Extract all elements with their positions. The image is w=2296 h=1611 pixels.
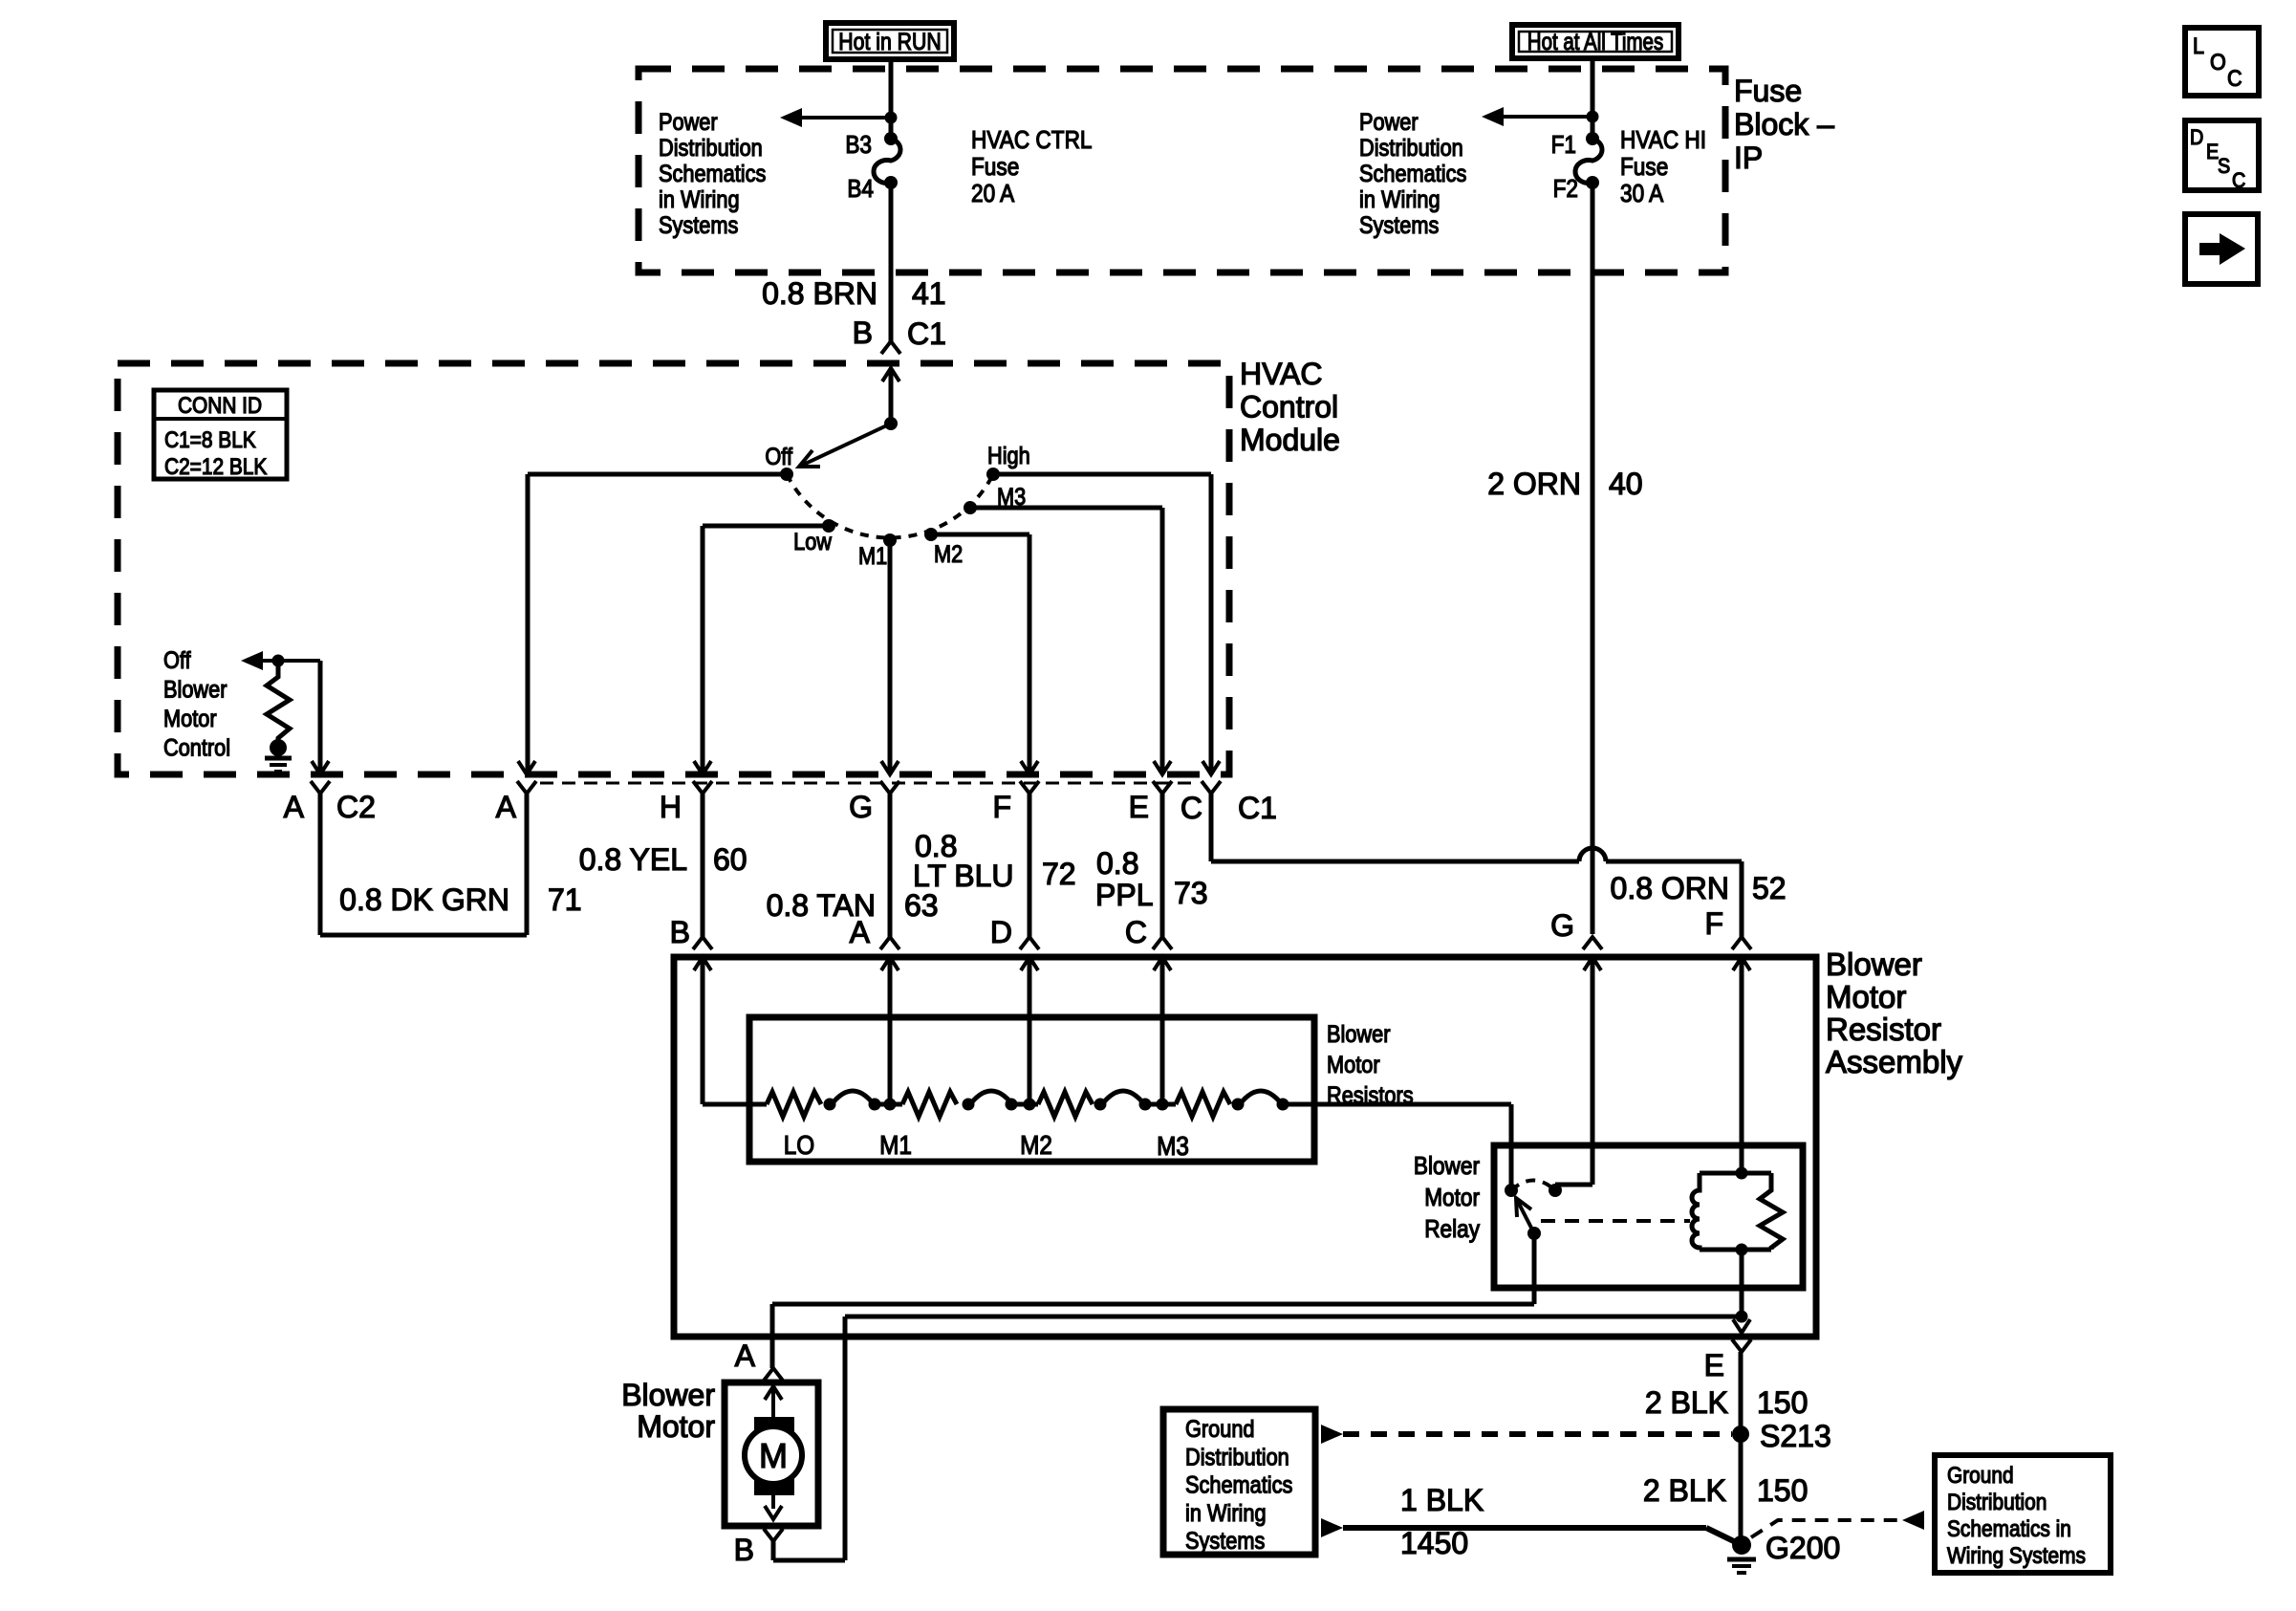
svg-text:in Wiring: in Wiring — [659, 186, 740, 213]
connector C2 pin A (module side) — [312, 761, 329, 774]
svg-text:O: O — [2210, 49, 2226, 75]
junction dot coil top — [1736, 1167, 1748, 1180]
svg-text:0.8 DK GRN: 0.8 DK GRN — [339, 882, 509, 917]
svg-text:C1: C1 — [1238, 791, 1277, 825]
svg-text:20 A: 20 A — [971, 181, 1015, 208]
svg-text:B3: B3 — [845, 132, 872, 160]
junction dot M3 tap — [1157, 1099, 1169, 1111]
blower motor resistors box — [749, 1017, 1314, 1162]
svg-text:Ground: Ground — [1947, 1463, 2014, 1489]
svg-text:HVAC: HVAC — [1240, 357, 1323, 391]
svg-text:73: 73 — [1174, 876, 1208, 910]
svg-text:Resistor: Resistor — [1826, 1012, 1941, 1047]
svg-text:C: C — [2232, 169, 2245, 192]
wire M2 contact to connector C1-F — [931, 533, 1029, 537]
svg-text:Power: Power — [1359, 109, 1419, 136]
junction dot after LO — [824, 1099, 836, 1111]
relay coil suppression resistor — [1760, 1173, 1783, 1250]
svg-text:2 BLK: 2 BLK — [1643, 1473, 1726, 1508]
junction dot ground node E — [1736, 1311, 1748, 1323]
switch pivot junction dot — [884, 417, 898, 430]
svg-text:HVAC HI: HVAC HI — [1620, 127, 1706, 155]
svg-text:150: 150 — [1757, 1473, 1808, 1508]
wire A into M1 tap — [888, 957, 893, 1104]
blower motor relay box — [1494, 1145, 1803, 1288]
ground distribution schematics box (left) — [1163, 1409, 1315, 1555]
svg-text:Systems: Systems — [1185, 1528, 1265, 1555]
svg-text:A: A — [284, 790, 305, 824]
svg-text:M: M — [759, 1436, 788, 1475]
resistor off blower motor control — [267, 661, 290, 743]
svg-text:C: C — [1125, 915, 1147, 949]
svg-text:E: E — [1704, 1348, 1724, 1382]
relay contact dashed arc — [1511, 1181, 1555, 1191]
svg-text:C: C — [1180, 791, 1202, 825]
arrow to Power Distribution Schematics (left fuse) — [780, 108, 802, 127]
svg-text:L: L — [2193, 33, 2204, 58]
svg-text:LO: LO — [784, 1129, 814, 1160]
wire coil bottom to ground node — [1740, 1250, 1744, 1317]
relay contact dot (NO, from fuse) — [1549, 1184, 1562, 1197]
svg-text:Motor: Motor — [163, 706, 217, 732]
arrow to off blower motor control — [241, 651, 263, 670]
wire E to S213 — [1739, 1352, 1744, 1545]
relay wiper pivot dot — [1527, 1227, 1541, 1240]
resistor M1 — [902, 1092, 957, 1117]
svg-text:Distribution: Distribution — [1359, 135, 1463, 162]
connector C1 pin G — [881, 761, 899, 774]
svg-text:M2: M2 — [1020, 1129, 1052, 1160]
CONN ID table box — [154, 390, 287, 479]
svg-text:M3: M3 — [1157, 1130, 1189, 1161]
svg-text:C2=12 BLK: C2=12 BLK — [164, 454, 267, 480]
connector pin C (assembly) — [1153, 937, 1172, 949]
splice S213 dot — [1732, 1426, 1749, 1443]
svg-text:Fuse: Fuse — [1734, 74, 1802, 108]
wire C into M3 tap — [1160, 957, 1165, 1104]
relay actuation dashed link — [1541, 1219, 1690, 1223]
wire hop after M2 — [1102, 1091, 1144, 1104]
wire B into resistor chain — [701, 957, 705, 1104]
legend box forward arrow — [2185, 214, 2258, 284]
svg-text:D: D — [2190, 126, 2203, 149]
svg-text:C2: C2 — [336, 790, 376, 824]
svg-text:G200: G200 — [1765, 1531, 1840, 1565]
dashed link G200 to ground distribution box — [1751, 1520, 1900, 1537]
svg-text:0.8 ORN: 0.8 ORN — [1611, 871, 1729, 905]
svg-text:Schematics: Schematics — [1359, 161, 1466, 187]
arrow from left ground box (bottom) — [1321, 1518, 1343, 1537]
svg-text:Motor: Motor — [637, 1409, 715, 1444]
svg-text:M1: M1 — [879, 1129, 912, 1160]
wire into motor with arrow — [765, 1386, 782, 1400]
svg-text:HVAC CTRL: HVAC CTRL — [971, 127, 1092, 155]
svg-text:1450: 1450 — [1400, 1526, 1468, 1560]
junction dot on HVAC CTRL feed — [885, 112, 898, 124]
svg-text:Systems: Systems — [659, 212, 738, 239]
svg-text:Hot at All Times: Hot at All Times — [1527, 28, 1663, 54]
switch contact dot M2 — [924, 528, 938, 541]
svg-text:Low: Low — [793, 529, 832, 555]
wire branch to power distribution left — [801, 116, 891, 120]
wire motor to B with arrow — [771, 1493, 775, 1509]
arrow from left ground box (top) — [1321, 1425, 1343, 1444]
ground G200 symbol — [1727, 1557, 1756, 1562]
svg-text:C1: C1 — [907, 316, 946, 351]
svg-text:40: 40 — [1609, 467, 1643, 501]
svg-text:Blower: Blower — [621, 1378, 715, 1412]
svg-text:F1: F1 — [1551, 132, 1576, 160]
svg-text:72: 72 — [1042, 857, 1076, 891]
junction dot coil bottom — [1736, 1244, 1748, 1256]
svg-text:G: G — [1550, 908, 1574, 943]
junction dot after M3 resistor — [1232, 1099, 1245, 1111]
wire relay common to blower motor A — [1532, 1233, 1537, 1304]
junction dot on HVAC HI feed — [1587, 111, 1599, 123]
svg-text:S213: S213 — [1760, 1419, 1831, 1453]
svg-text:Control: Control — [163, 734, 230, 761]
svg-text:S: S — [2218, 155, 2230, 178]
svg-text:PPL: PPL — [1095, 878, 1153, 912]
wire blower motor B return to ground node — [771, 1541, 776, 1560]
fuse HVAC CTRL 20A symbol B3-B4 — [884, 132, 898, 145]
svg-text:IP: IP — [1734, 141, 1763, 175]
connector pin E exit (assembly bottom) — [1733, 1319, 1750, 1333]
relay coil top bar — [1700, 1171, 1771, 1176]
wire 0.8 PPL 73 (E to C) — [1160, 794, 1165, 937]
svg-text:Distribution: Distribution — [1947, 1490, 2047, 1515]
switch contact dot High — [986, 468, 1000, 481]
blower motor resistor assembly box — [674, 957, 1816, 1337]
junction dot after M1 resistor — [963, 1099, 975, 1111]
wire High contact to connector C1-C — [993, 472, 1211, 477]
svg-text:F: F — [992, 790, 1011, 824]
svg-text:2 BLK: 2 BLK — [1645, 1385, 1728, 1420]
svg-text:41: 41 — [912, 276, 946, 311]
ground symbol off control — [265, 756, 292, 761]
junction dot M2 tap — [1024, 1099, 1036, 1111]
junction dot after M2 resistor — [1094, 1099, 1107, 1111]
svg-text:B: B — [853, 316, 873, 350]
svg-text:0.8 BRN: 0.8 BRN — [762, 276, 877, 311]
wire F to relay coil — [1740, 957, 1744, 1173]
svg-text:E: E — [1129, 790, 1149, 824]
junction dot before M2 — [1006, 1099, 1018, 1111]
svg-text:2 ORN: 2 ORN — [1487, 467, 1581, 501]
svg-text:Blower: Blower — [1414, 1153, 1480, 1181]
wire fuse B4 down to connector C1-B — [889, 183, 894, 341]
ground dot off control — [270, 739, 287, 756]
svg-text:M1: M1 — [858, 543, 887, 570]
connector pin B (assembly) — [693, 937, 712, 949]
ground distribution dashed link to S213 — [1343, 1431, 1732, 1437]
svg-text:G: G — [849, 790, 873, 824]
wire chain end to relay — [1283, 1102, 1511, 1107]
svg-text:B4: B4 — [847, 176, 874, 204]
svg-text:Motor: Motor — [1826, 979, 1906, 1014]
wire LO-M1 segment — [875, 1102, 902, 1107]
svg-text:Off: Off — [765, 444, 792, 470]
svg-text:Schematics: Schematics — [1185, 1471, 1292, 1498]
svg-text:F: F — [1704, 906, 1723, 941]
wire Low contact to connector C1-H — [703, 524, 829, 529]
wire off control branch — [262, 659, 320, 663]
svg-text:71: 71 — [548, 882, 582, 917]
switch contact arc (dashed) — [787, 474, 993, 537]
wire from Hot at All Times to fuse F1 — [1591, 58, 1595, 139]
HVAC control module dashed box — [118, 363, 1229, 774]
wire M1 contact to connector C1-G — [888, 540, 893, 774]
wire 2 ORN into relay NO contact — [1591, 957, 1595, 1185]
ground distribution schematics box (right) — [1935, 1455, 2111, 1573]
svg-text:in Wiring: in Wiring — [1185, 1499, 1267, 1526]
svg-text:D: D — [990, 915, 1012, 949]
connector pin G (assembly) — [1583, 937, 1602, 949]
svg-text:Block –: Block – — [1734, 107, 1834, 142]
svg-text:Distribution: Distribution — [659, 135, 763, 162]
svg-text:CONN ID: CONN ID — [178, 393, 262, 419]
svg-text:Control: Control — [1240, 390, 1338, 425]
svg-text:Blower: Blower — [163, 676, 227, 703]
svg-text:A: A — [496, 790, 517, 824]
resistor LO — [767, 1092, 821, 1117]
svg-text:1 BLK: 1 BLK — [1400, 1483, 1484, 1517]
connector C1 pin E — [1154, 761, 1171, 774]
svg-text:Module: Module — [1240, 423, 1340, 457]
junction dot before M3 — [1139, 1099, 1152, 1111]
junction dot off control — [272, 655, 285, 667]
svg-text:Schematics: Schematics — [659, 161, 766, 187]
connector C1 pin F — [1021, 761, 1038, 774]
svg-text:F2: F2 — [1553, 176, 1578, 204]
connector C1 pin H — [694, 761, 711, 774]
relay wiper arm — [1516, 1198, 1534, 1233]
svg-text:Fuse: Fuse — [1620, 154, 1668, 182]
svg-text:C: C — [2227, 65, 2242, 91]
svg-text:Power: Power — [659, 109, 718, 136]
connector C1 pin C — [1202, 761, 1220, 774]
svg-text:Motor: Motor — [1327, 1052, 1380, 1078]
wire M1-M2 segment — [1011, 1102, 1038, 1107]
svg-text:Fuse: Fuse — [971, 154, 1019, 182]
svg-text:Blower: Blower — [1826, 947, 1922, 982]
svg-text:B: B — [734, 1533, 754, 1567]
arrow to Power Distribution Schematics (right fuse) — [1482, 107, 1504, 126]
switch contact dot Low — [822, 519, 835, 533]
svg-text:B: B — [670, 915, 690, 949]
svg-text:H: H — [660, 790, 682, 824]
wire 0.8 ORN 52 (C1-C to F) — [1209, 794, 1214, 861]
connector pin D (assembly) — [1020, 937, 1039, 949]
switch contact dot M1 — [883, 533, 897, 547]
ground G200 dot — [1732, 1535, 1751, 1555]
svg-text:M2: M2 — [934, 541, 963, 568]
svg-text:0.8: 0.8 — [1096, 846, 1138, 881]
power feed label box Hot at All Times — [1512, 25, 1679, 58]
wire 0.8 DK GRN 71 link — [318, 794, 323, 935]
resistor M3 — [1176, 1092, 1230, 1117]
junction dot M1 tap — [884, 1099, 897, 1111]
blower motor connector pin A — [764, 1368, 783, 1381]
switch wiper arm with arrowhead — [799, 424, 891, 467]
svg-text:in Wiring: in Wiring — [1359, 186, 1440, 213]
connector C1 pin A — [518, 761, 535, 774]
svg-text:Off: Off — [163, 647, 191, 674]
blower motor box — [725, 1382, 818, 1526]
power feed label box Hot in RUN — [826, 23, 954, 59]
switch contact dot M3 — [964, 501, 977, 514]
wire branch to power distribution right — [1503, 115, 1592, 119]
motor M1 armature symbol — [754, 1417, 794, 1438]
svg-text:60: 60 — [713, 842, 747, 877]
wire hop after M1 — [970, 1091, 1012, 1104]
wire 1 BLK 1450 to G200 — [1343, 1525, 1706, 1531]
svg-text:0.8 YEL: 0.8 YEL — [579, 842, 687, 877]
svg-text:Schematics in: Schematics in — [1947, 1516, 2071, 1542]
wire hop after M3 — [1240, 1091, 1282, 1104]
arrow into right ground box — [1902, 1511, 1924, 1530]
wire D into M2 tap — [1028, 957, 1032, 1104]
wire connector to switch pivot — [889, 368, 894, 424]
svg-text:150: 150 — [1757, 1385, 1808, 1420]
svg-text:Ground: Ground — [1185, 1416, 1255, 1443]
svg-text:52: 52 — [1752, 871, 1787, 905]
relay coil — [1692, 1173, 1700, 1250]
relay contact dot (from resistor chain) — [1505, 1184, 1518, 1197]
switch contact dot Off — [780, 468, 793, 481]
svg-text:Relay: Relay — [1424, 1216, 1481, 1244]
wire hop after LO — [832, 1091, 874, 1104]
resistor M2 — [1038, 1092, 1093, 1117]
svg-text:Wiring Systems: Wiring Systems — [1947, 1543, 2086, 1569]
wire 0.8 LT BLU 72 (F to D) — [1028, 794, 1032, 937]
connector C1 pin B at fuse output — [881, 341, 900, 354]
wire M2-M3 segment — [1145, 1102, 1176, 1107]
svg-text:LT BLU: LT BLU — [913, 859, 1014, 893]
legend box DESC — [2185, 120, 2259, 190]
wire 0.8 YEL 60 (H to B) — [701, 794, 705, 937]
wire Off contact to connector C1-A — [528, 472, 787, 477]
svg-text:Systems: Systems — [1359, 212, 1439, 239]
fuse block IP dashed box — [639, 69, 1725, 272]
svg-text:C1=8 BLK: C1=8 BLK — [164, 427, 256, 453]
svg-text:Blower: Blower — [1327, 1021, 1391, 1048]
svg-text:A: A — [850, 915, 871, 949]
wire from Hot in RUN to fuse B3 — [889, 59, 894, 139]
wire M3 contact to connector C1-E — [970, 506, 1162, 511]
connector pin F (assembly) — [1732, 937, 1751, 949]
connector C1 strip (thin dashed) — [540, 782, 1198, 785]
svg-text:A: A — [735, 1339, 756, 1373]
wire 2 ORN 40 from fuse F2 down to resistor assembly G — [1591, 183, 1595, 934]
svg-text:30 A: 30 A — [1620, 181, 1664, 208]
blower motor connector pin B — [764, 1529, 783, 1541]
svg-text:Assembly: Assembly — [1826, 1044, 1963, 1079]
connector pin A (assembly) — [880, 937, 899, 949]
svg-text:63: 63 — [904, 888, 939, 923]
fuse HVAC HI 30A symbol F1-F2 — [1586, 132, 1599, 145]
junction dot chain end — [1277, 1099, 1289, 1111]
wire 0.8 TAN 63 (G to A) — [888, 794, 893, 937]
legend box LOC — [2185, 28, 2259, 96]
svg-text:Motor: Motor — [1424, 1185, 1480, 1212]
svg-text:High: High — [987, 443, 1030, 469]
junction dot before M1 — [869, 1099, 881, 1111]
svg-text:Distribution: Distribution — [1185, 1444, 1289, 1470]
relay coil bottom bar — [1700, 1248, 1771, 1252]
svg-text:Hot in RUN: Hot in RUN — [838, 28, 941, 54]
